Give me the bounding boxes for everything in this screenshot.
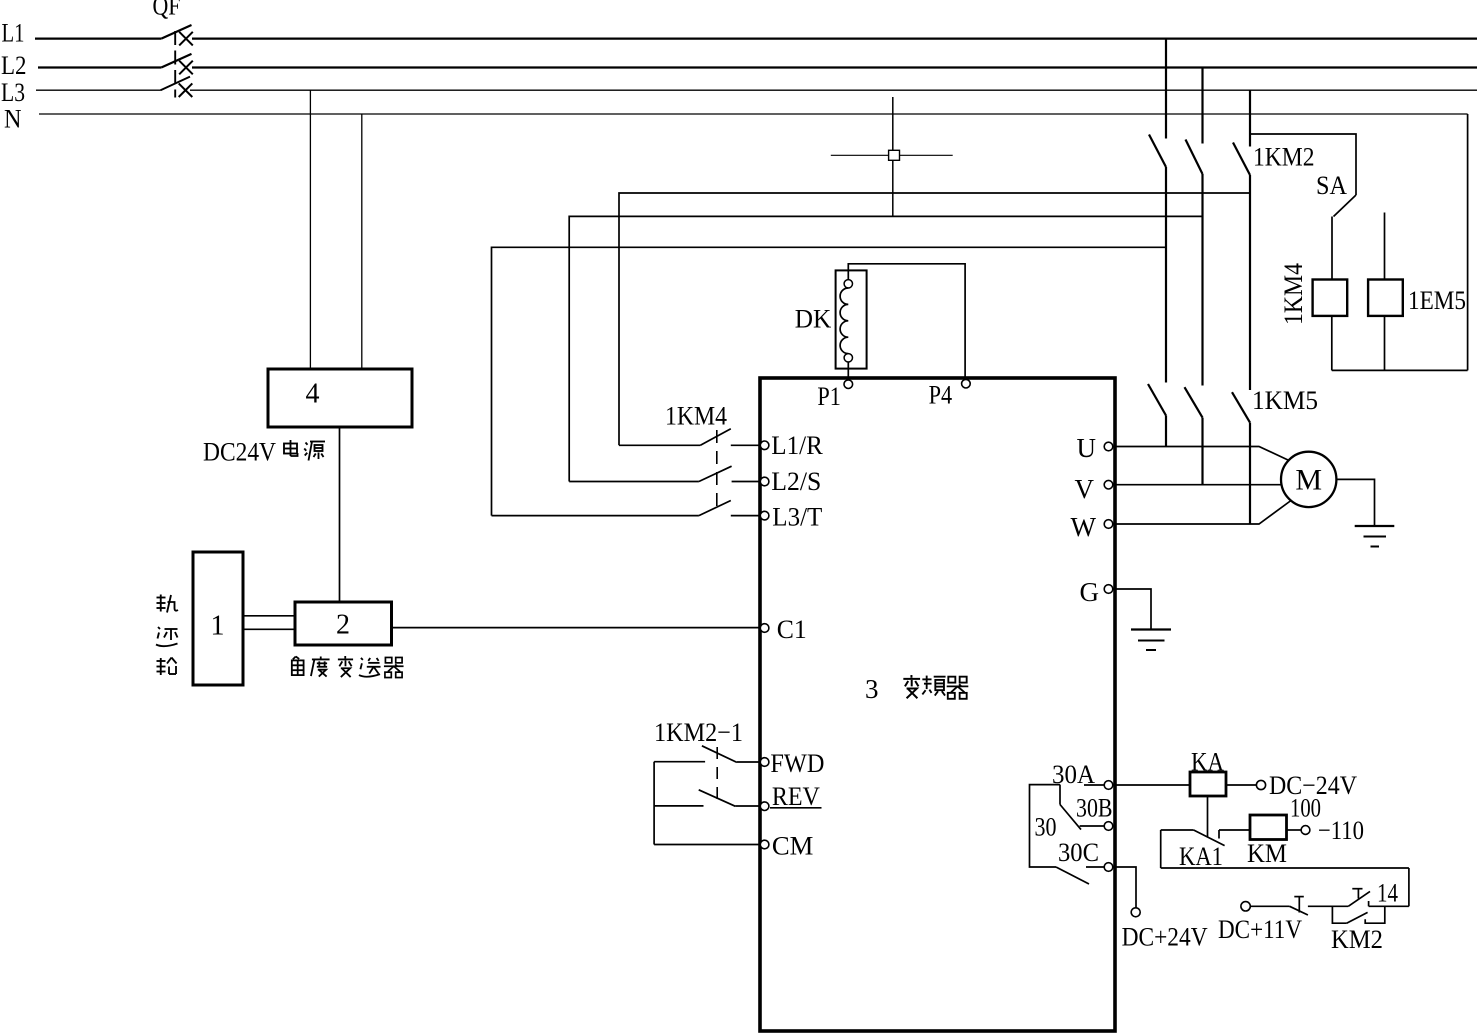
angle transducer box 2 xyxy=(295,602,392,645)
svg-text:100: 100 xyxy=(1290,793,1321,823)
svg-text:1EM5: 1EM5 xyxy=(1408,285,1466,315)
REV underline xyxy=(770,807,822,809)
svg-text:CM: CM xyxy=(772,831,814,861)
label angle transducer (Chinese: jiao du bian song qi) xyxy=(292,656,404,678)
svg-text:DC+24V: DC+24V xyxy=(1122,922,1208,952)
wire motor to ground xyxy=(1336,479,1374,526)
svg-text:30B: 30B xyxy=(1076,793,1113,823)
contact 30-30C blade (open) xyxy=(1056,867,1089,884)
wire DC+11V to pushbutton xyxy=(1251,905,1290,907)
wire line C to 1KM4 pole 3 xyxy=(492,515,699,517)
contact KM2 NC blade xyxy=(1347,912,1368,923)
wire line B to 1KM4 pole 2 xyxy=(569,481,699,483)
track wheel box 1 xyxy=(193,552,243,685)
wire N drop to coil return xyxy=(1467,114,1469,370)
wire L1 bus right xyxy=(192,37,1477,39)
wire 30A to KA coil xyxy=(1116,784,1190,786)
wire DK bottom to P1 xyxy=(847,362,849,380)
svg-text:SA: SA xyxy=(1316,170,1347,200)
wire FWD contact to terminal xyxy=(737,761,761,763)
wire SA throw to coil 1EM5 xyxy=(1384,213,1386,280)
wire SA to coil 1KM4 xyxy=(1331,217,1333,280)
svg-text:FWD: FWD xyxy=(770,748,824,778)
wire phase L3 drop below 1KM2 xyxy=(1249,175,1251,390)
node DC+24V circle xyxy=(1131,908,1140,917)
svg-text:L2/S: L2/S xyxy=(771,466,821,496)
wire transducer 2 to C1 xyxy=(392,627,761,629)
relay coil KA xyxy=(1190,772,1226,796)
label track wheel (Chinese: gui ji lun) xyxy=(156,595,178,676)
node DC-24V circle xyxy=(1256,780,1265,789)
node DC+11V circle xyxy=(1241,902,1250,911)
svg-text:1KM2: 1KM2 xyxy=(1253,142,1315,172)
terminal C1 circle xyxy=(760,624,769,633)
wire coil 1EM5 bottom xyxy=(1384,316,1386,371)
svg-text:L2: L2 xyxy=(1,50,27,80)
motor M circle xyxy=(1281,452,1336,507)
wire U to motor xyxy=(1116,447,1288,461)
reactor DK outline box xyxy=(836,270,867,368)
terminal FWD circle xyxy=(760,758,769,767)
svg-text:DC+11V: DC+11V xyxy=(1218,914,1302,944)
svg-text:30C: 30C xyxy=(1058,837,1099,867)
reactor DK coil xyxy=(840,288,848,354)
wire KM coil to 110 xyxy=(1287,829,1302,831)
wire KA coil to DC-24V xyxy=(1226,784,1256,786)
terminal L2S circle xyxy=(760,477,769,486)
wire L3 bus left xyxy=(36,89,161,91)
wire phase L1 drop below 1KM2 xyxy=(1165,167,1167,383)
pushbutton NC blade xyxy=(1290,906,1308,915)
wire KA1 to KM coil xyxy=(1219,829,1250,831)
reference cross mark xyxy=(831,97,953,216)
wire phase L2 to inverter L2/S xyxy=(569,216,1202,481)
wire 30C to DC+24V xyxy=(1116,867,1136,908)
svg-text:14: 14 xyxy=(1377,878,1398,908)
svg-text:KM2: KM2 xyxy=(1331,924,1383,954)
svg-text:1KM2−1: 1KM2−1 xyxy=(654,717,743,747)
breaker QF pole 2 contact X xyxy=(179,61,193,75)
svg-text:1KM5: 1KM5 xyxy=(1252,385,1318,415)
contactor 1KM2 pole 3 blade xyxy=(1233,143,1250,176)
wire L2 bus right xyxy=(192,66,1477,68)
wire 1KM4 pole 3 to L3/T xyxy=(731,515,761,517)
pushbutton actuator xyxy=(1294,896,1304,898)
svg-text:1KM4: 1KM4 xyxy=(665,401,727,431)
contactor 1KM4 pole 1 blade xyxy=(700,429,730,446)
wire L3 tap to SA xyxy=(1250,134,1356,195)
wire N bus xyxy=(39,113,1468,115)
contactor 1KM2 pole 2 blade xyxy=(1186,140,1203,175)
svg-text:KA: KA xyxy=(1191,747,1224,777)
contact 30-30B blade xyxy=(1060,805,1081,830)
svg-text:L3/T: L3/T xyxy=(772,502,822,532)
contactor coil KM xyxy=(1250,815,1287,840)
contact 1KM2-1 linkage (dashed) xyxy=(716,747,718,800)
svg-text:N: N xyxy=(4,104,22,134)
svg-text:−110: −110 xyxy=(1318,815,1364,845)
terminal L1R circle xyxy=(760,441,769,450)
terminal CM circle xyxy=(760,840,769,849)
wire REV contact to terminal xyxy=(735,805,760,807)
svg-text:KA1: KA1 xyxy=(1179,841,1223,871)
svg-text:1: 1 xyxy=(211,611,225,642)
wire KM2 NC branch left xyxy=(1332,906,1346,923)
wire 30 common bracket xyxy=(1030,785,1061,867)
wire coil 1KM4 bottom xyxy=(1331,316,1333,371)
svg-text:G: G xyxy=(1080,577,1100,607)
svg-text:L1: L1 xyxy=(2,18,25,48)
switch SA blade xyxy=(1334,195,1357,217)
node 110 circle xyxy=(1301,826,1310,835)
wire L3 to power supply 4 xyxy=(309,90,311,369)
wire KM2 NO to corner xyxy=(1369,905,1409,907)
svg-text:QF: QF xyxy=(153,0,181,21)
terminal G circle xyxy=(1104,585,1113,594)
wire 1KM5 pole 1 to U line xyxy=(1165,416,1167,447)
contact KM2 NO blade xyxy=(1348,891,1370,906)
svg-text:4: 4 xyxy=(306,379,320,410)
wire to REV contact xyxy=(654,805,703,807)
wire L3 bus right xyxy=(190,89,1477,91)
wire N to power supply 4 xyxy=(361,114,363,369)
wire pushbutton to KM2 xyxy=(1308,905,1348,907)
contact KM2 NO fixed stub xyxy=(1368,901,1370,906)
wire phase L3 to inverter L1/R xyxy=(619,193,1250,445)
wire coil return bus xyxy=(1332,369,1468,371)
terminal REV circle xyxy=(760,802,769,811)
ground (G terminal) xyxy=(1131,630,1171,651)
inverter 3 outline xyxy=(760,378,1115,1031)
breaker QF pole 1 contact X xyxy=(179,32,193,46)
svg-text:L1/R: L1/R xyxy=(771,430,823,460)
wire L1 bus left xyxy=(35,37,161,39)
contact KM2 NO actuator xyxy=(1352,888,1362,890)
svg-text:U: U xyxy=(1077,433,1097,463)
wire KA1 bracket top xyxy=(1161,829,1194,831)
mechanical link box1-box2 lower xyxy=(243,628,295,630)
terminal P1 circle xyxy=(844,380,853,389)
svg-text:DK: DK xyxy=(795,304,832,334)
wire 30 common elbow xyxy=(1059,785,1061,805)
wire corner down from return bus xyxy=(1408,868,1410,906)
wire L2 bus left xyxy=(38,66,161,68)
coil 1EM5 xyxy=(1368,280,1403,316)
wire DK top to P4 xyxy=(848,264,965,379)
wire 30A stub xyxy=(1084,784,1104,786)
contactor 1KM4 linkage (dashed) xyxy=(716,430,718,509)
wire W to motor xyxy=(1116,501,1291,525)
wire 1KM4 pole 1 to L1/R xyxy=(731,444,761,446)
svg-text:30: 30 xyxy=(1035,812,1057,842)
svg-text:P1: P1 xyxy=(817,381,841,411)
svg-text:2: 2 xyxy=(336,610,350,641)
svg-text:M: M xyxy=(1295,464,1322,497)
wire KA coil to KA1 blade xyxy=(1207,796,1209,837)
wire phase L1 to inverter L3/T xyxy=(492,247,1167,515)
wire phase L2 drop xyxy=(1201,68,1203,144)
inverter label (Chinese): bian pin qi xyxy=(903,675,968,699)
wire 1KM5 pole 2 to V line xyxy=(1201,418,1203,485)
svg-text:KM: KM xyxy=(1247,838,1287,868)
wire 1KM4 pole 2 to L2/S xyxy=(732,481,761,483)
svg-text:REV: REV xyxy=(772,781,820,811)
svg-text:DC24V: DC24V xyxy=(203,437,276,467)
svg-text:L3: L3 xyxy=(1,77,25,107)
contactor 1KM5 pole 1 blade xyxy=(1148,384,1166,416)
ground (motor) xyxy=(1355,526,1395,547)
wire 30B stub xyxy=(1080,825,1105,827)
contactor 1KM5 pole 2 blade xyxy=(1185,387,1203,417)
wire 30C stub xyxy=(1086,866,1104,868)
wire V to motor xyxy=(1116,484,1281,486)
terminal W circle xyxy=(1104,520,1113,529)
svg-text:P4: P4 xyxy=(929,380,953,410)
terminal P4 circle xyxy=(962,379,971,388)
breaker QF linkage (dashed) xyxy=(174,31,176,98)
wire KA1 bracket down xyxy=(1160,830,1162,868)
reactor DK top terminal circle xyxy=(844,280,852,288)
wire 1KM5 pole 3 to W line xyxy=(1249,423,1251,524)
wire KA1 return bus xyxy=(1161,867,1409,869)
contactor 1KM4 pole 2 blade xyxy=(699,466,732,481)
contact KM2 NC fixed bracket xyxy=(1365,906,1385,923)
contact 1KM2-1 FWD blade xyxy=(702,746,737,763)
coil 1KM4 xyxy=(1313,280,1348,316)
terminal L3T circle xyxy=(760,511,769,520)
reactor DK bottom terminal circle xyxy=(844,354,852,362)
wire to CM terminal xyxy=(654,844,760,846)
terminal 30A circle xyxy=(1104,781,1113,790)
wire to FWD contact xyxy=(654,761,705,763)
terminal V circle xyxy=(1104,480,1113,489)
wire line A to 1KM4 pole 1 xyxy=(619,444,700,446)
contactor 1KM5 pole 3 blade xyxy=(1232,392,1250,422)
label DC24V (Chinese: dian yuan) xyxy=(203,437,325,467)
contact 1KM2-1 REV blade xyxy=(699,790,736,807)
wire FWD/REV/CM common bracket xyxy=(653,762,655,845)
contactor 1KM2 pole 1 blade xyxy=(1149,135,1166,168)
wire phase L3 drop xyxy=(1249,90,1251,146)
power supply box 4 xyxy=(268,369,412,427)
contact KA1 fixed terminal stub xyxy=(1218,830,1220,839)
breaker QF pole 3 blade xyxy=(161,77,191,91)
contactor 1KM4 pole 3 blade xyxy=(699,501,731,516)
svg-text:V: V xyxy=(1075,474,1095,504)
terminal U circle xyxy=(1104,442,1113,451)
svg-text:C1: C1 xyxy=(777,614,807,644)
wire box4 to transducer 2 xyxy=(339,427,341,602)
breaker QF pole 3 contact X xyxy=(179,83,193,97)
svg-text:W: W xyxy=(1071,512,1097,542)
terminal 30B circle xyxy=(1104,822,1113,831)
terminal 30C circle xyxy=(1104,863,1113,872)
contact KA1 blade xyxy=(1194,830,1225,846)
breaker QF pole 1 blade xyxy=(161,25,191,39)
svg-text:1KM4: 1KM4 xyxy=(1278,263,1308,325)
wire phase L2 drop below 1KM2 xyxy=(1201,174,1203,386)
mechanical link box1-box2 upper xyxy=(243,615,295,617)
svg-text:3: 3 xyxy=(865,674,879,704)
wire G to ground xyxy=(1116,589,1151,630)
wire phase L1 drop xyxy=(1165,39,1167,139)
breaker QF pole 2 blade xyxy=(161,54,191,68)
